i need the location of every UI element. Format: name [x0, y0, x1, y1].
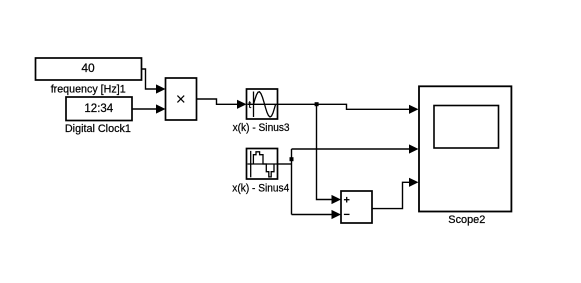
wire branch-to-sum-minus [292, 214, 333, 216]
svg-text:12:34: 12:34 [84, 103, 113, 115]
svg-text:t: t [248, 100, 251, 111]
wire branch-to-scope-input2 [292, 148, 411, 150]
svg-text:Digital Clock1: Digital Clock1 [65, 123, 131, 135]
sine wave block x(k) - Sinus3 [247, 89, 278, 119]
wire sinus4 output to branch [278, 163, 292, 165]
wire clock-to-product [132, 108, 157, 110]
svg-text:x(k) - Sinus4: x(k) - Sinus4 [232, 183, 289, 195]
label frequency [Hz]1 [51, 84, 126, 96]
wire product-to-sinus3 [197, 99, 239, 104]
label Scope2 [448, 214, 485, 226]
svg-text:frequency [Hz]1: frequency [Hz]1 [51, 84, 126, 96]
junction node on sinus4 branch [290, 157, 294, 161]
arrowhead into scope input 2 [409, 144, 419, 153]
product block U1 (multiply) [166, 78, 197, 120]
arrowhead into scope input 3 [409, 178, 419, 187]
arrowhead into product top input [156, 84, 166, 93]
arrowhead into scope input 1 [409, 105, 419, 114]
svg-text:x(k) - Sinus3: x(k) - Sinus3 [233, 122, 290, 134]
arrowhead into sum plus input [332, 195, 342, 204]
label Digital Clock1 [65, 123, 131, 135]
wire frequency-to-product [142, 69, 158, 89]
label x(k) - Sinus3 [233, 122, 290, 134]
arrowhead into sinus3 input [237, 100, 247, 109]
label x(k) - Sinus4 [232, 183, 289, 195]
junction node on sinus3 wire [315, 102, 319, 106]
svg-text:Scope2: Scope2 [448, 214, 485, 226]
constant block "40" (frequency [Hz]1) [36, 58, 142, 80]
wire sinus3-to-scope-input1 [278, 104, 411, 109]
scope block Scope2 [419, 86, 511, 211]
wire junction-to-sum-plus [317, 104, 333, 199]
arrowhead into product bottom input [156, 104, 166, 113]
discrete sine wave block x(k) - Sinus4 [247, 149, 278, 180]
wire branch vertical [291, 149, 293, 215]
arrowhead into sum minus input [332, 210, 342, 219]
digital clock block "12:34" (Digital Clock1) [66, 97, 132, 121]
sum block (plus minus) [341, 191, 372, 223]
svg-text:40: 40 [81, 61, 95, 75]
wire sum-to-scope-input3 [372, 182, 410, 208]
